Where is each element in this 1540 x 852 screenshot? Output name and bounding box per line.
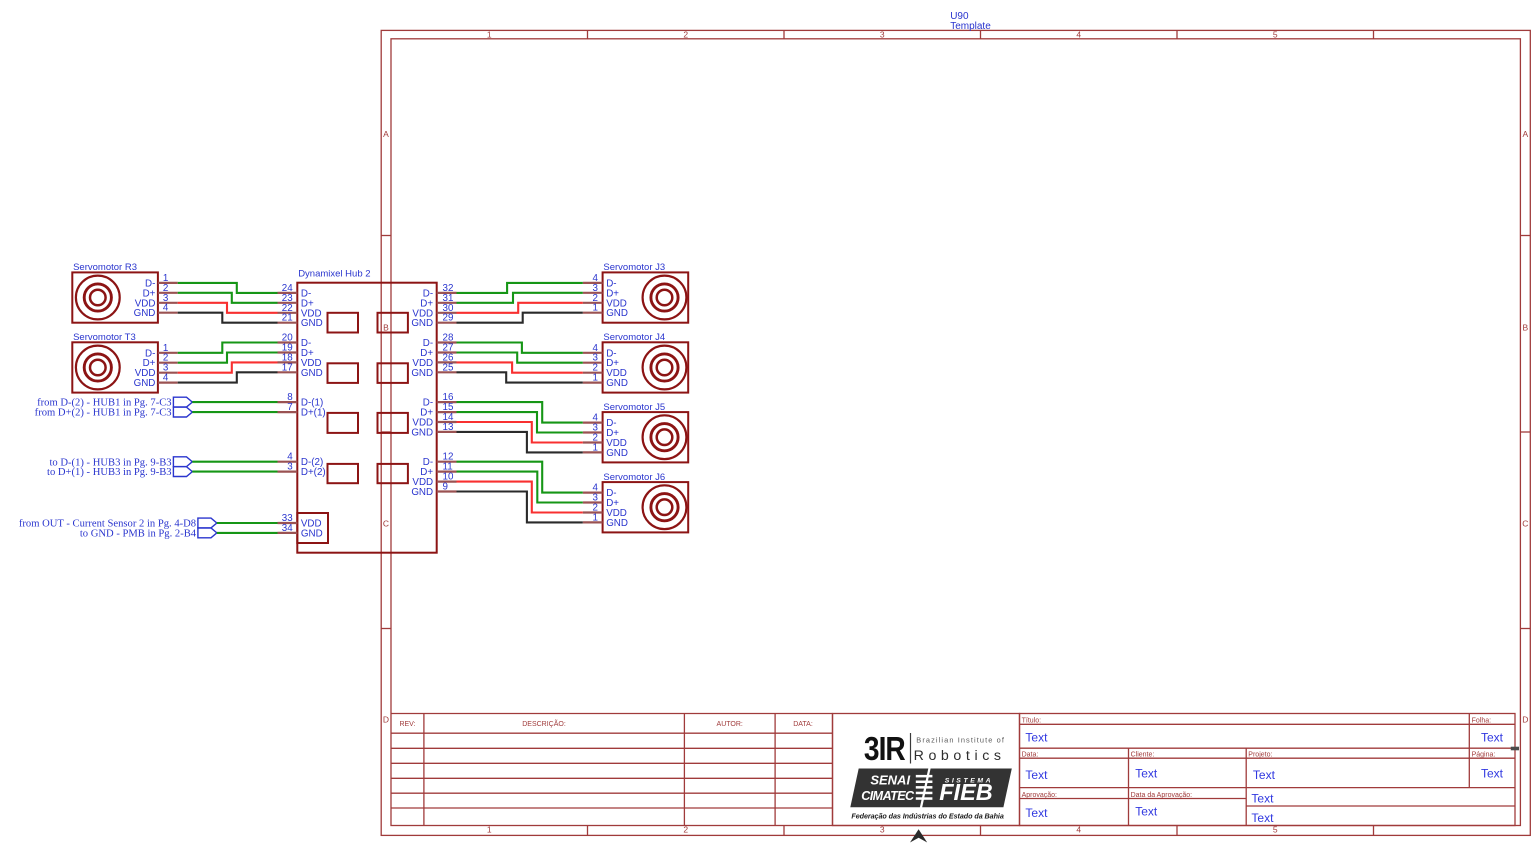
svg-text:29: 29 (443, 313, 454, 324)
svg-text:from D+(2) - HUB1 in Pg. 7-C3: from D+(2) - HUB1 in Pg. 7-C3 (35, 408, 172, 419)
svg-text:17: 17 (282, 362, 293, 373)
svg-text:A: A (1522, 129, 1528, 139)
svg-text:Servomotor T3: Servomotor T3 (73, 332, 136, 343)
svg-text:B: B (1522, 322, 1528, 332)
svg-text:4: 4 (163, 303, 169, 314)
svg-text:1: 1 (487, 825, 492, 835)
svg-text:SENAI: SENAI (870, 773, 910, 788)
svg-text:3: 3 (880, 30, 885, 40)
svg-text:FIEB: FIEB (939, 779, 993, 805)
svg-text:D: D (383, 715, 389, 725)
svg-text:Federação das Indústrias do Es: Federação das Indústrias do Estado da Ba… (851, 811, 1003, 820)
svg-text:Data:: Data: (1022, 752, 1039, 759)
svg-text:A: A (383, 129, 389, 139)
svg-text:21: 21 (282, 313, 293, 324)
svg-text:Brazilian Institute of: Brazilian Institute of (916, 736, 1005, 745)
svg-text:25: 25 (443, 362, 454, 373)
svg-text:GND: GND (134, 378, 156, 389)
svg-text:Servomotor J6: Servomotor J6 (603, 472, 665, 483)
svg-text:REV:: REV: (399, 721, 415, 728)
svg-text:Text: Text (1251, 811, 1274, 825)
svg-text:D+(1): D+(1) (301, 408, 326, 419)
svg-text:9: 9 (443, 482, 448, 493)
svg-text:GND: GND (411, 318, 433, 329)
svg-text:GND: GND (411, 487, 433, 498)
svg-text:1: 1 (593, 373, 598, 384)
svg-text:DATA:: DATA: (793, 721, 813, 728)
svg-text:GND: GND (606, 378, 628, 389)
svg-text:Título:: Título: (1022, 718, 1042, 725)
svg-text:Servomotor J3: Servomotor J3 (603, 262, 665, 273)
svg-text:AUTOR:: AUTOR: (717, 721, 743, 728)
svg-text:Folha:: Folha: (1472, 718, 1492, 725)
svg-text:1: 1 (593, 512, 598, 523)
svg-text:Text: Text (1251, 792, 1274, 806)
svg-text:GND: GND (606, 448, 628, 459)
svg-text:3: 3 (287, 462, 293, 473)
svg-text:Página:: Página: (1472, 752, 1496, 759)
svg-text:Servomotor J5: Servomotor J5 (603, 402, 665, 413)
svg-text:GND: GND (606, 518, 628, 529)
svg-text:Template: Template (950, 21, 991, 32)
svg-text:3IR: 3IR (864, 730, 905, 768)
svg-text:2: 2 (683, 825, 688, 835)
svg-text:Aprovação:: Aprovação: (1022, 792, 1057, 799)
svg-text:4: 4 (1076, 30, 1081, 40)
svg-text:B: B (383, 322, 389, 332)
svg-text:Text: Text (1481, 766, 1504, 780)
svg-text:GND: GND (134, 308, 156, 319)
svg-text:D+(2): D+(2) (301, 467, 326, 478)
svg-text:Text: Text (1253, 768, 1276, 782)
svg-text:Text: Text (1135, 805, 1158, 819)
svg-text:Text: Text (1481, 731, 1504, 745)
svg-text:5: 5 (1273, 30, 1278, 40)
svg-text:1: 1 (593, 303, 598, 314)
svg-text:GND: GND (301, 368, 323, 379)
svg-text:Text: Text (1135, 766, 1158, 780)
svg-text:1: 1 (487, 30, 492, 40)
svg-text:13: 13 (443, 422, 454, 433)
svg-text:1: 1 (593, 442, 598, 453)
svg-text:7: 7 (287, 402, 292, 413)
svg-text:Robotics: Robotics (914, 748, 1006, 764)
svg-text:DESCRIÇÃO:: DESCRIÇÃO: (522, 719, 566, 728)
svg-text:Servomotor J4: Servomotor J4 (603, 332, 665, 343)
svg-text:GND: GND (301, 528, 323, 539)
svg-text:Cliente:: Cliente: (1131, 752, 1155, 759)
svg-text:GND: GND (606, 308, 628, 319)
svg-text:GND: GND (411, 368, 433, 379)
svg-text:Text: Text (1025, 768, 1048, 782)
svg-text:4: 4 (163, 373, 169, 384)
svg-text:Dynamixel Hub 2: Dynamixel Hub 2 (298, 268, 370, 279)
svg-text:C: C (383, 519, 389, 529)
svg-text:D: D (1522, 715, 1528, 725)
svg-text:to GND - PMB in Pg. 2-B4: to GND - PMB in Pg. 2-B4 (80, 529, 197, 540)
svg-text:2: 2 (683, 30, 688, 40)
svg-text:Projeto:: Projeto: (1248, 752, 1272, 759)
svg-text:GND: GND (301, 318, 323, 329)
svg-text:Text: Text (1025, 806, 1048, 820)
svg-text:C: C (1522, 519, 1528, 529)
svg-text:34: 34 (282, 523, 293, 534)
svg-text:to D+(1) - HUB3 in Pg. 9-B3: to D+(1) - HUB3 in Pg. 9-B3 (47, 467, 172, 478)
svg-text:GND: GND (411, 427, 433, 438)
svg-text:Servomotor R3: Servomotor R3 (73, 262, 137, 273)
svg-text:Data da Aprovação:: Data da Aprovação: (1131, 792, 1193, 799)
svg-text:Text: Text (1025, 731, 1048, 745)
svg-text:CIMATEC: CIMATEC (861, 789, 915, 803)
